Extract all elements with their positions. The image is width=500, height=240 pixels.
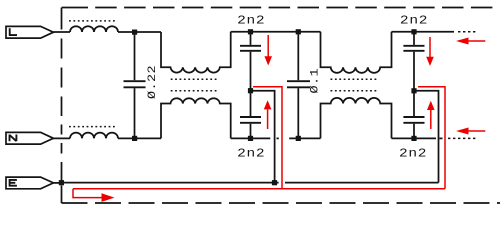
arrowhead E stub [102,193,115,202]
red arrow down through C2 [267,35,269,57]
capacitor C3 2n2 bottom middle [240,91,261,139]
svg-text:Ø.22: Ø.22 [146,65,159,99]
choke T1 bottom winding [161,98,231,138]
terminal N [6,132,53,144]
wire L input [53,31,70,33]
red entry arrow bottom right [469,130,486,132]
core line of L2 [69,126,117,128]
wire N to node B [118,137,161,139]
node C4 bottom junction [296,136,301,141]
capacitor C1 0.22 wires [134,32,136,80]
wire E input [53,182,61,184]
terminal L [6,26,53,38]
enclosure top dashed border [62,7,493,9]
top rail segment 1 [231,31,321,33]
bottom rail exit dots [448,137,478,139]
bottom rail crossing dash [277,137,279,139]
node earth-border junction [59,180,64,185]
bottom rail crossing dash right [440,137,443,139]
choke T1 core lines [171,78,218,80]
arrowhead down C2 [264,56,272,65]
svg-text:2n2: 2n2 [237,14,265,28]
earth line segment 1 [61,182,278,184]
earth line segment 2 [285,182,439,184]
node C3 bottom rail junction [248,136,253,141]
arrowhead down C5 [426,57,434,66]
choke T2 top winding [321,32,392,73]
arrowhead up C6 [427,101,435,110]
red loop right cap pair [418,87,445,189]
choke T2 bottom winding [321,98,392,138]
inductor L1 (line L) [70,26,118,32]
capacitor C6 2n2 bottom right [403,91,424,139]
svg-text:2n2: 2n2 [399,147,427,161]
core line of L1 [69,20,117,22]
inductor L2 (line N) [70,133,118,139]
capacitor C1 0.22 plates [124,80,146,82]
red source loop stub [73,189,102,198]
red arrow up through C3 [267,110,269,130]
node C2-C3 midpoint junction [248,88,253,93]
red earth return line [73,188,445,190]
enclosure left dashed border [61,8,63,204]
wire C2-C3 midpoint to earth [251,91,275,183]
node A junction [132,30,137,35]
label L [9,28,17,35]
red entry arrow top right [469,40,486,42]
capacitor C5 2n2 top right [403,32,424,91]
svg-text:Ø.1: Ø.1 [308,68,321,93]
bottom rail segment 1 [231,137,271,139]
arrowhead up C3 [264,100,272,109]
svg-text:2n2: 2n2 [400,14,428,28]
node earth mid junction [272,180,277,185]
arrowhead entry bottom [456,128,469,135]
enclosure bottom dashed border [62,202,500,204]
node C6 bottom rail junction [411,136,416,141]
wire L to node A [118,31,161,33]
label E [10,179,17,187]
capacitor C4 0.1 [287,32,310,139]
red arrow up through C6 [430,110,432,129]
top rail segment 2 [392,31,455,33]
choke T1 top winding [161,32,231,73]
top rail exit dots [458,31,477,33]
node rail junction C2 [248,29,253,34]
svg-text:2n2: 2n2 [237,147,265,161]
red noise current overlay [73,35,485,198]
wire C5-C6 midpoint to earth [414,91,439,183]
capacitor C2 2n2 top middle [240,32,261,91]
bottom rail segment 2 [289,137,320,139]
choke T2 core lines [331,78,379,80]
node C5-C6 midpoint junction [411,88,416,93]
red arrow down through C5 [429,37,431,57]
node C5 rail junction [411,29,416,34]
red loop middle cap pair [253,87,282,189]
bottom rail segment 3 [392,137,437,139]
label N [10,135,17,142]
node C4 top junction [296,29,301,34]
terminal E [6,177,53,189]
node B junction [132,136,137,141]
arrowhead entry top [456,38,469,45]
wire N input [52,137,70,139]
